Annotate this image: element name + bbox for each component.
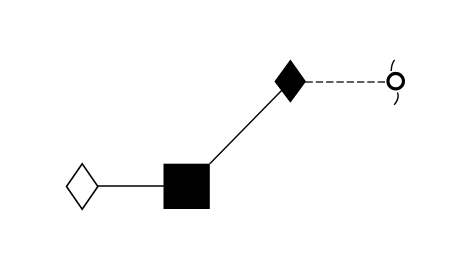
squiggle arc below circle (394, 93, 398, 105)
wire: open diamond to black square (97, 185, 165, 187)
node: open diamond monosaccharide (67, 164, 98, 209)
wire: black square to black diamond (diagonal) (210, 84, 289, 164)
node: black filled square monosaccharide (164, 164, 210, 209)
wire: dashed bond from black diamond to circle (306, 81, 387, 83)
squiggle arc above circle (391, 60, 394, 71)
node: reducing-end circle (388, 74, 403, 89)
node: black filled diamond monosaccharide (275, 60, 305, 102)
